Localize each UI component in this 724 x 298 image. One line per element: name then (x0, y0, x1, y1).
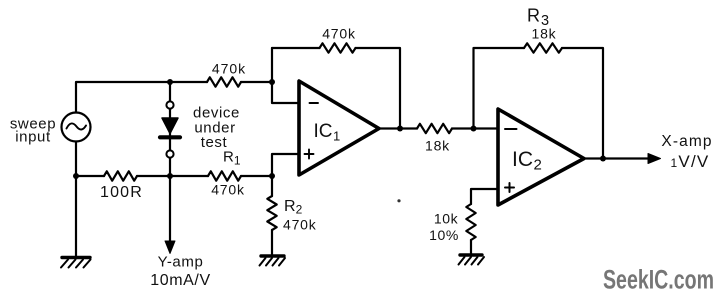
wire input resistor to inverting node (241, 81, 272, 83)
svg-text:18k: 18k (425, 138, 450, 154)
resistor R3 18k (524, 43, 562, 52)
svg-text:X-amp: X-amp (661, 133, 712, 150)
wire IC2 noninverting input (471, 189, 498, 204)
wire 100R to R1 (137, 175, 208, 177)
resistor 100R (104, 171, 137, 180)
wire R1 to noninverting node (241, 175, 272, 177)
wire R3 loop left (474, 48, 525, 129)
ground below R2 (260, 230, 286, 266)
wire noninverting input of IC1 (272, 154, 299, 176)
svg-text:input: input (15, 129, 51, 146)
wire R3 loop right down to output (562, 48, 603, 159)
node DUT top junction (167, 79, 173, 85)
speck artifact (397, 199, 400, 202)
wire DUT branch (169, 82, 171, 176)
svg-text:18k: 18k (532, 26, 557, 42)
label X-amp 1V/V (661, 133, 712, 171)
terminal top of device under test (166, 101, 173, 108)
wire sweep top to input node (76, 82, 207, 113)
source V1 sweep input (62, 113, 91, 142)
svg-text:1V/V: 1V/V (671, 152, 710, 171)
ground below 10k (459, 240, 485, 265)
node inverting input junction (269, 79, 275, 85)
svg-text:10mA/V: 10mA/V (150, 272, 211, 289)
resistor 470k input (207, 77, 241, 86)
resistor 18k (417, 124, 452, 133)
svg-text:R2: R2 (284, 198, 303, 217)
terminal bottom of device under test (166, 150, 173, 157)
node R2 top junction (269, 173, 275, 179)
svg-text:470k: 470k (211, 182, 245, 198)
svg-text:470k: 470k (283, 217, 317, 233)
node R3 left junction (471, 126, 477, 132)
node R3 to output junction (600, 156, 606, 162)
op-amp IC1 (299, 81, 379, 175)
wire IC2 output with X-amp arrow (584, 154, 661, 164)
label Y-amp 10mA/V (150, 254, 211, 290)
label sweep input (10, 116, 56, 146)
resistor 470k feedback (320, 43, 356, 52)
wire feedback top right and down to output (356, 48, 401, 129)
label device under test (193, 105, 240, 152)
resistor 10k (466, 204, 475, 240)
svg-text:470k: 470k (212, 61, 246, 77)
node Y-amp junction (167, 173, 173, 179)
svg-text:IC2: IC2 (512, 148, 542, 174)
wire IC1 output (379, 127, 417, 129)
svg-text:10k: 10k (434, 211, 459, 227)
resistor R2 470k (267, 196, 276, 230)
wire inverting input node of IC1 (272, 48, 299, 103)
wire noninverting node to R2 (271, 176, 273, 196)
svg-text:R1: R1 (223, 149, 241, 168)
node sweep bottom junction (73, 173, 79, 179)
ground below sweep input (61, 176, 91, 268)
svg-text:100R: 100R (100, 184, 143, 201)
wire 18k to IC2 inverting input (452, 127, 498, 129)
svg-text:470k: 470k (322, 26, 356, 42)
arrow to Y-amp (165, 176, 175, 254)
diode device under test (160, 118, 180, 137)
wire sweep bottom to 100R (76, 142, 104, 177)
svg-text:Y-amp: Y-amp (158, 254, 204, 271)
svg-text:SeekIC.com: SeekIC.com (603, 265, 714, 295)
label 10k 10% (429, 211, 459, 244)
svg-text:IC1: IC1 (314, 121, 341, 144)
node feedback to output junction (397, 126, 403, 132)
wire feedback top left (272, 47, 320, 49)
resistor R1 470k (208, 171, 241, 180)
op-amp IC2 (498, 109, 584, 205)
svg-text:10%: 10% (429, 227, 459, 243)
